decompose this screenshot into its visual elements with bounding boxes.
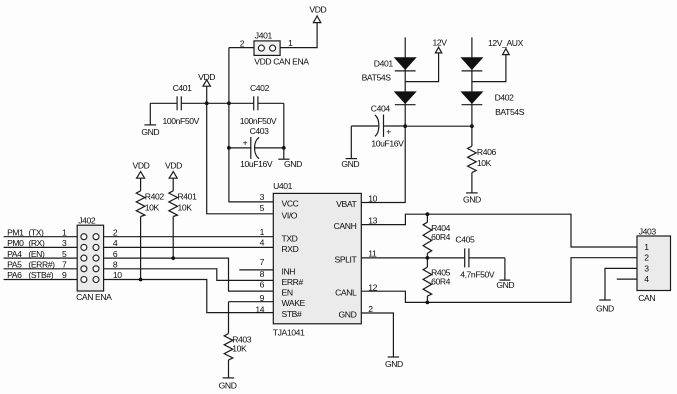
svg-text:+: + — [386, 126, 391, 136]
svg-text:7: 7 — [260, 257, 265, 267]
svg-text:7: 7 — [62, 260, 67, 270]
resistor R401 10K — [169, 178, 197, 258]
node junction VDD/C401 — [205, 101, 209, 105]
svg-text:14: 14 — [255, 305, 264, 315]
svg-text:6: 6 — [113, 249, 118, 259]
svg-text:1: 1 — [644, 242, 649, 252]
wire D401 middle tap to 12V — [405, 53, 438, 92]
ground below R403 — [219, 378, 237, 391]
svg-text:C405: C405 — [455, 235, 475, 245]
svg-text:10K: 10K — [232, 344, 247, 354]
svg-text:VDD CAN ENA: VDD CAN ENA — [254, 57, 309, 67]
wire D402 middle tap to 12V_AUX — [472, 55, 506, 92]
power VDD top right — [309, 5, 326, 23]
resistor R405 60R4 — [423, 258, 451, 303]
svg-text:CAN: CAN — [638, 293, 655, 303]
svg-text:GND: GND — [284, 159, 302, 169]
svg-text:CANH: CANH — [334, 221, 357, 231]
U401 right pin names — [334, 199, 358, 319]
node junction C403 left — [227, 146, 231, 150]
wire D401 rail to VBAT — [361, 126, 405, 202]
svg-text:GND: GND — [496, 280, 514, 290]
svg-text:R406: R406 — [477, 147, 497, 157]
wire VDD mid vertical to U401 VI/O — [207, 86, 274, 214]
svg-text:12V: 12V — [432, 37, 447, 47]
svg-text:1: 1 — [260, 227, 265, 237]
wire CANL U401.12 to J403.2 — [361, 258, 637, 303]
svg-text:GND: GND — [338, 310, 356, 320]
ground below C403 — [278, 148, 302, 169]
wire RXD net J402.4 to U401.4 — [104, 246, 274, 248]
svg-text:VI/O: VI/O — [282, 210, 298, 220]
svg-text:TJA1041: TJA1041 — [273, 327, 305, 337]
svg-text:(TX): (TX) — [28, 227, 44, 237]
svg-text:1: 1 — [288, 38, 293, 48]
node PA4 (EN) labels pin5/6 — [7, 249, 118, 259]
svg-text:BAT54S: BAT54S — [362, 73, 392, 83]
svg-text:8: 8 — [113, 260, 118, 270]
diode D401 BAT54S upper — [362, 37, 416, 82]
svg-text:C402: C402 — [250, 83, 270, 93]
svg-text:GND: GND — [219, 381, 237, 391]
svg-text:PM0: PM0 — [7, 238, 24, 248]
svg-text:EN: EN — [282, 288, 293, 298]
wire EN net J402.6 to U401.6 — [104, 258, 274, 291]
svg-text:CANL: CANL — [335, 288, 357, 298]
node PM1 (TX) labels pin1/2 — [7, 227, 118, 237]
svg-text:10: 10 — [368, 194, 377, 204]
svg-text:VDD: VDD — [309, 5, 326, 15]
svg-text:4: 4 — [260, 237, 265, 247]
svg-text:VDD: VDD — [133, 160, 150, 170]
node PA6 (STB#) labels pin9/10 — [7, 270, 122, 280]
capacitor C403 10uF16V polarized — [229, 126, 284, 169]
svg-text:PM1: PM1 — [7, 227, 24, 237]
svg-text:R401: R401 — [178, 191, 198, 201]
svg-text:100nF50V: 100nF50V — [240, 116, 277, 126]
diode D402 BAT54S upper — [462, 37, 483, 71]
svg-text:6: 6 — [260, 280, 265, 290]
svg-text:1: 1 — [62, 227, 67, 237]
svg-text:TXD: TXD — [282, 233, 298, 243]
svg-text:R402: R402 — [145, 191, 165, 201]
resistor R406 10K — [468, 126, 497, 192]
capacitor C405 4,7nF50V — [455, 235, 505, 280]
svg-text:GND: GND — [463, 195, 481, 205]
power VDD for R401 — [165, 160, 182, 178]
svg-text:(RX): (RX) — [28, 238, 45, 248]
svg-text:(STB#): (STB#) — [28, 270, 53, 280]
svg-text:C401: C401 — [173, 83, 193, 93]
wire VDD node to C402 — [207, 102, 229, 104]
power 12V — [432, 37, 447, 53]
svg-text:5: 5 — [62, 249, 67, 259]
svg-text:(ERR#): (ERR#) — [28, 260, 55, 270]
svg-text:SPLIT: SPLIT — [335, 255, 358, 265]
svg-text:5: 5 — [260, 203, 265, 213]
svg-text:10uF16V: 10uF16V — [240, 159, 273, 169]
svg-text:8: 8 — [260, 269, 265, 279]
capacitor C401 100nF50V — [150, 83, 206, 126]
op-amp U401 TJA1041 body — [273, 181, 362, 337]
svg-text:60R4: 60R4 — [431, 232, 451, 242]
svg-text:4: 4 — [113, 238, 118, 248]
connector J403 CAN — [637, 226, 671, 303]
svg-text:C404: C404 — [371, 103, 391, 113]
svg-text:GND: GND — [341, 159, 359, 169]
svg-text:(EN): (EN) — [28, 249, 45, 259]
svg-text:U401: U401 — [273, 181, 293, 191]
svg-text:+: + — [243, 138, 248, 148]
wire PM1 row1 left — [4, 236, 78, 238]
wire PA5 row4 left — [4, 268, 78, 270]
svg-text:C403: C403 — [250, 126, 270, 136]
svg-text:11: 11 — [368, 249, 377, 259]
svg-text:2: 2 — [644, 253, 649, 263]
wire SPLIT U401.11 — [361, 257, 464, 259]
svg-text:2: 2 — [113, 227, 118, 237]
svg-text:J403: J403 — [639, 226, 657, 236]
ground below C401 — [141, 103, 159, 137]
node junction R401/EN — [171, 256, 175, 260]
svg-text:BAT54S: BAT54S — [495, 107, 525, 117]
svg-text:VBAT: VBAT — [336, 199, 357, 209]
ground below C404 — [341, 126, 359, 169]
svg-text:10uF16V: 10uF16V — [371, 138, 404, 148]
svg-text:WAKE: WAKE — [282, 298, 306, 308]
wire J401.2 left — [229, 47, 254, 49]
capacitor C404 10uF16V polarized — [351, 103, 405, 148]
wire WAKE net U401.9 — [229, 301, 274, 303]
wire INH stub U401.7 — [239, 269, 273, 271]
connector J402 — [76, 215, 112, 302]
capacitor C402 100nF50V — [229, 83, 284, 126]
svg-text:3: 3 — [62, 238, 67, 248]
node junction R402/STB# — [139, 278, 143, 282]
ground below R406 — [463, 193, 481, 205]
wire C402 right down — [283, 103, 285, 148]
svg-text:3: 3 — [644, 263, 649, 273]
ground below U401 pin2 — [385, 357, 403, 369]
wire CANH U401.13 to J403.1 — [361, 214, 637, 247]
svg-text:CAN ENA: CAN ENA — [76, 292, 112, 302]
node junction C402 top — [227, 101, 231, 105]
wire TXD net J402.2 to U401.1 — [104, 236, 274, 238]
svg-text:12V_AUX: 12V_AUX — [488, 38, 524, 48]
resistor R404 60R4 — [423, 214, 451, 258]
node PA5 (ERR#) labels pin7/8 — [7, 260, 118, 270]
svg-text:GND: GND — [596, 303, 614, 313]
wire PA6 row5 left — [4, 279, 78, 281]
ground below J403.3 — [596, 300, 614, 313]
wire J401.1 to VDD — [280, 23, 317, 48]
wire J403.4 stub — [617, 278, 637, 280]
svg-text:10: 10 — [113, 270, 122, 280]
svg-text:STB#: STB# — [282, 309, 303, 319]
wire VDD/J401.2 vertical to U401 VCC — [229, 48, 273, 202]
svg-text:10K: 10K — [145, 203, 160, 213]
svg-text:9: 9 — [62, 270, 67, 280]
node junction R405 bottom — [426, 301, 430, 305]
svg-text:60R4: 60R4 — [431, 276, 451, 286]
wire U401 GND pin2 — [361, 313, 393, 357]
svg-text:3: 3 — [260, 192, 265, 202]
svg-text:10K: 10K — [178, 203, 193, 213]
connector J401 — [240, 30, 310, 66]
svg-text:PA5: PA5 — [7, 260, 22, 270]
node junction D401 rail — [403, 124, 407, 128]
diode D402 BAT54S lower — [462, 92, 525, 126]
node junction C403 right — [282, 146, 286, 150]
U401 left pin numbers — [255, 192, 264, 315]
U401 right pin numbers — [368, 194, 377, 314]
node junction R404 top — [426, 212, 430, 216]
wire J403.3 to GND — [605, 268, 637, 299]
svg-text:10K: 10K — [477, 158, 492, 168]
resistor R402 10K — [136, 178, 164, 279]
svg-text:GND: GND — [141, 127, 159, 137]
power 12V_AUX — [488, 38, 524, 55]
power VDD for R402 — [133, 160, 150, 178]
wire C404 to diode rails — [405, 125, 472, 127]
svg-text:ERR#: ERR# — [282, 277, 304, 287]
wire ERR# net J402.8 to U401.8 — [104, 269, 274, 281]
node PM0 (RX) labels pin3/4 — [7, 238, 118, 248]
svg-text:D402: D402 — [495, 92, 515, 102]
svg-text:RXD: RXD — [282, 244, 299, 254]
svg-text:D401: D401 — [374, 59, 394, 69]
U401 left pin names — [282, 199, 306, 320]
svg-text:100nF50V: 100nF50V — [163, 116, 200, 126]
ground right of C405 — [496, 258, 514, 290]
svg-text:J402: J402 — [78, 215, 96, 225]
svg-text:J401: J401 — [255, 30, 273, 40]
wire PA4 row3 left — [4, 257, 78, 259]
svg-text:9: 9 — [260, 293, 265, 303]
diode D401 BAT54S lower — [395, 92, 416, 126]
node junction D402 rail — [470, 124, 474, 128]
wire STB# net J402.10 to U401.14 — [104, 280, 274, 313]
svg-text:INH: INH — [282, 267, 296, 277]
node junction R404/R405 mid — [426, 256, 430, 260]
svg-text:4: 4 — [644, 274, 649, 284]
svg-text:PA4: PA4 — [7, 249, 22, 259]
svg-text:2: 2 — [240, 38, 245, 48]
svg-text:VDD: VDD — [165, 160, 182, 170]
svg-text:4,7nF50V: 4,7nF50V — [460, 270, 495, 280]
svg-text:VCC: VCC — [282, 199, 299, 209]
resistor R403 10K — [224, 302, 252, 378]
power VDD mid — [198, 72, 215, 86]
svg-text:PA6: PA6 — [7, 270, 22, 280]
wire PM0 row2 left — [4, 246, 78, 248]
svg-text:GND: GND — [385, 359, 403, 369]
